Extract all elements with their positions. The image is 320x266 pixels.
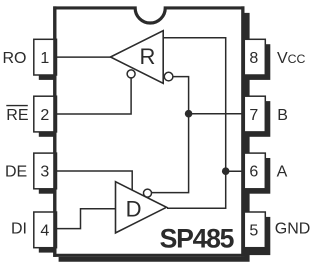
svg-text:R: R [139,44,155,69]
svg-text:DE: DE [5,164,27,181]
IC body drop shadow [59,13,250,262]
junction node B [185,110,193,118]
pin 1 box [34,39,57,75]
svg-text:RO: RO [3,50,27,67]
svg-text:1: 1 [40,50,49,67]
wire net B: receiver input B bubble to driver output B bubble [152,77,189,193]
wire net A: receiver input A to driver output A [163,38,226,208]
svg-text:6: 6 [249,164,258,181]
svg-text:7: 7 [249,107,258,124]
pin 7 shadow [249,101,270,137]
wire RE pin2 to receiver enable bubble [54,78,131,114]
svg-text:GND: GND [275,220,311,237]
pin 2 box [34,96,57,132]
wire DE pin3 to driver enable [54,171,132,191]
svg-text:4: 4 [40,222,49,239]
pin 1 shadow [39,75,57,80]
wire node B stub to pin7 [189,113,245,115]
body left border over pins [53,6,56,257]
svg-text:A: A [277,164,288,181]
bubble receiver enable (RE) [127,70,135,78]
wire DI pin4 to driver input [54,209,116,229]
pin 8 shadow [249,44,270,80]
IC body U1 (DIP-8 outline with notch) [55,8,243,255]
pin 8 box [244,39,265,75]
pin 7 box [244,96,265,132]
overline of RE [6,105,28,107]
pin 6 shadow [249,158,270,194]
junction node A [222,167,230,175]
bubble driver B output [144,189,152,197]
svg-text:D: D [126,196,142,221]
svg-text:3: 3 [40,164,49,181]
svg-text:5: 5 [249,222,258,239]
svg-text:B: B [277,107,288,124]
svg-text:8: 8 [249,50,258,67]
op-amp D (driver triangle) [116,182,167,233]
op-amp R (receiver triangle) [111,31,164,84]
body right border over pins [241,6,244,257]
pin 3 box [34,153,57,189]
svg-text:2: 2 [40,107,49,124]
wire node A stub to pin6 [226,170,245,172]
bubble receiver B input [164,72,173,81]
pin 4 box [34,212,57,248]
wire RO pin1 to receiver apex [54,56,111,58]
pin 6 box [244,153,265,189]
pin 5 shadow [249,217,270,255]
pin 4 shadow [39,248,57,253]
svg-text:DI: DI [11,221,27,238]
pin 5 box [244,212,265,248]
pin 2 shadow [39,132,57,137]
svg-text:SP485: SP485 [160,223,235,253]
svg-text:RE: RE [6,107,28,124]
svg-text:VCC: VCC [277,50,306,67]
pin 3 shadow [39,189,57,194]
